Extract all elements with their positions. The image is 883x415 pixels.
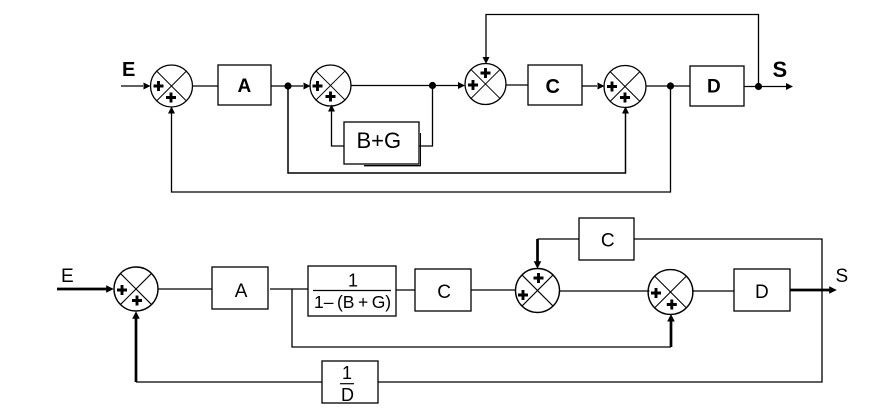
svg-text:1– (B + G): 1– (B + G) xyxy=(314,292,391,312)
svg-text:E: E xyxy=(61,266,74,287)
block B+G xyxy=(344,122,421,166)
svg-text:D: D xyxy=(341,385,354,405)
wire: branch after A to S7 bottom xyxy=(292,289,671,347)
block 1/D xyxy=(322,361,378,405)
block 1/(1-(B+G)) xyxy=(308,266,396,316)
wire: C to S4 xyxy=(582,85,597,87)
wire: thick input E xyxy=(57,288,107,291)
node B+G tap xyxy=(429,82,436,89)
block D (top) xyxy=(690,66,744,106)
wire: input E xyxy=(121,85,143,87)
wire: output tap to C feedback and into S6 top xyxy=(634,239,822,291)
wire: S5 to A xyxy=(158,288,212,290)
node after A xyxy=(284,82,291,89)
wire: thick output to S xyxy=(790,289,830,292)
summing junction S4 xyxy=(604,66,646,108)
wire: B+G output into S2 bottom xyxy=(332,110,345,146)
wire: S2 to S3 xyxy=(351,85,458,87)
wire: outer feedback S4-output node to S1 bottom xyxy=(172,86,671,192)
summing junction S1 xyxy=(151,65,193,107)
wire: S4 to D xyxy=(646,85,690,87)
block D (bottom) xyxy=(734,269,790,311)
svg-text:1: 1 xyxy=(348,271,358,291)
wire: S1 to A xyxy=(193,85,219,87)
wire: S3 to C xyxy=(506,84,528,86)
wire: inner feedback node-A to S4 bottom xyxy=(288,86,626,173)
wire: D to output S xyxy=(744,86,786,88)
svg-text:A: A xyxy=(235,281,248,302)
wire: 1/D output to S5 bottom xyxy=(136,381,322,383)
wire: top feedback from output node to S3 xyxy=(486,15,759,87)
svg-text:C: C xyxy=(546,76,560,98)
svg-text:S: S xyxy=(836,266,849,287)
svg-text:S: S xyxy=(773,57,788,82)
block A (bottom) xyxy=(212,267,268,309)
block C (top) xyxy=(528,65,582,105)
wire: S6 to S7 xyxy=(560,290,650,292)
svg-text:D: D xyxy=(707,77,721,98)
wire: B+G tap down into B+G block xyxy=(419,86,433,147)
svg-text:C: C xyxy=(601,231,615,252)
wire: S7 to D xyxy=(692,290,734,292)
svg-text:E: E xyxy=(122,59,135,81)
svg-text:D: D xyxy=(755,282,769,303)
wire: A to S2 xyxy=(271,85,303,87)
svg-text:C: C xyxy=(437,282,451,303)
summing junction S6 xyxy=(516,269,560,313)
svg-text:1: 1 xyxy=(342,363,352,383)
summing junction S7 xyxy=(648,270,693,315)
summing junction S3 xyxy=(465,64,506,105)
block C (bottom inline) xyxy=(415,269,471,311)
block A (top) xyxy=(218,65,271,105)
summing junction S2 xyxy=(310,65,351,106)
wire: A to fraction block xyxy=(270,288,308,290)
node S4 output tap xyxy=(667,82,674,89)
svg-text:A: A xyxy=(238,76,252,97)
wire: output tap down to 1/D feedback xyxy=(378,291,822,382)
svg-text:B+G: B+G xyxy=(357,128,402,153)
summing junction S5 xyxy=(114,267,158,311)
wire: C to S6 xyxy=(471,289,515,291)
wire: fraction block to C xyxy=(396,289,415,291)
block C (top feedback, bottom diagram) xyxy=(579,218,634,260)
node output tap xyxy=(755,83,762,90)
